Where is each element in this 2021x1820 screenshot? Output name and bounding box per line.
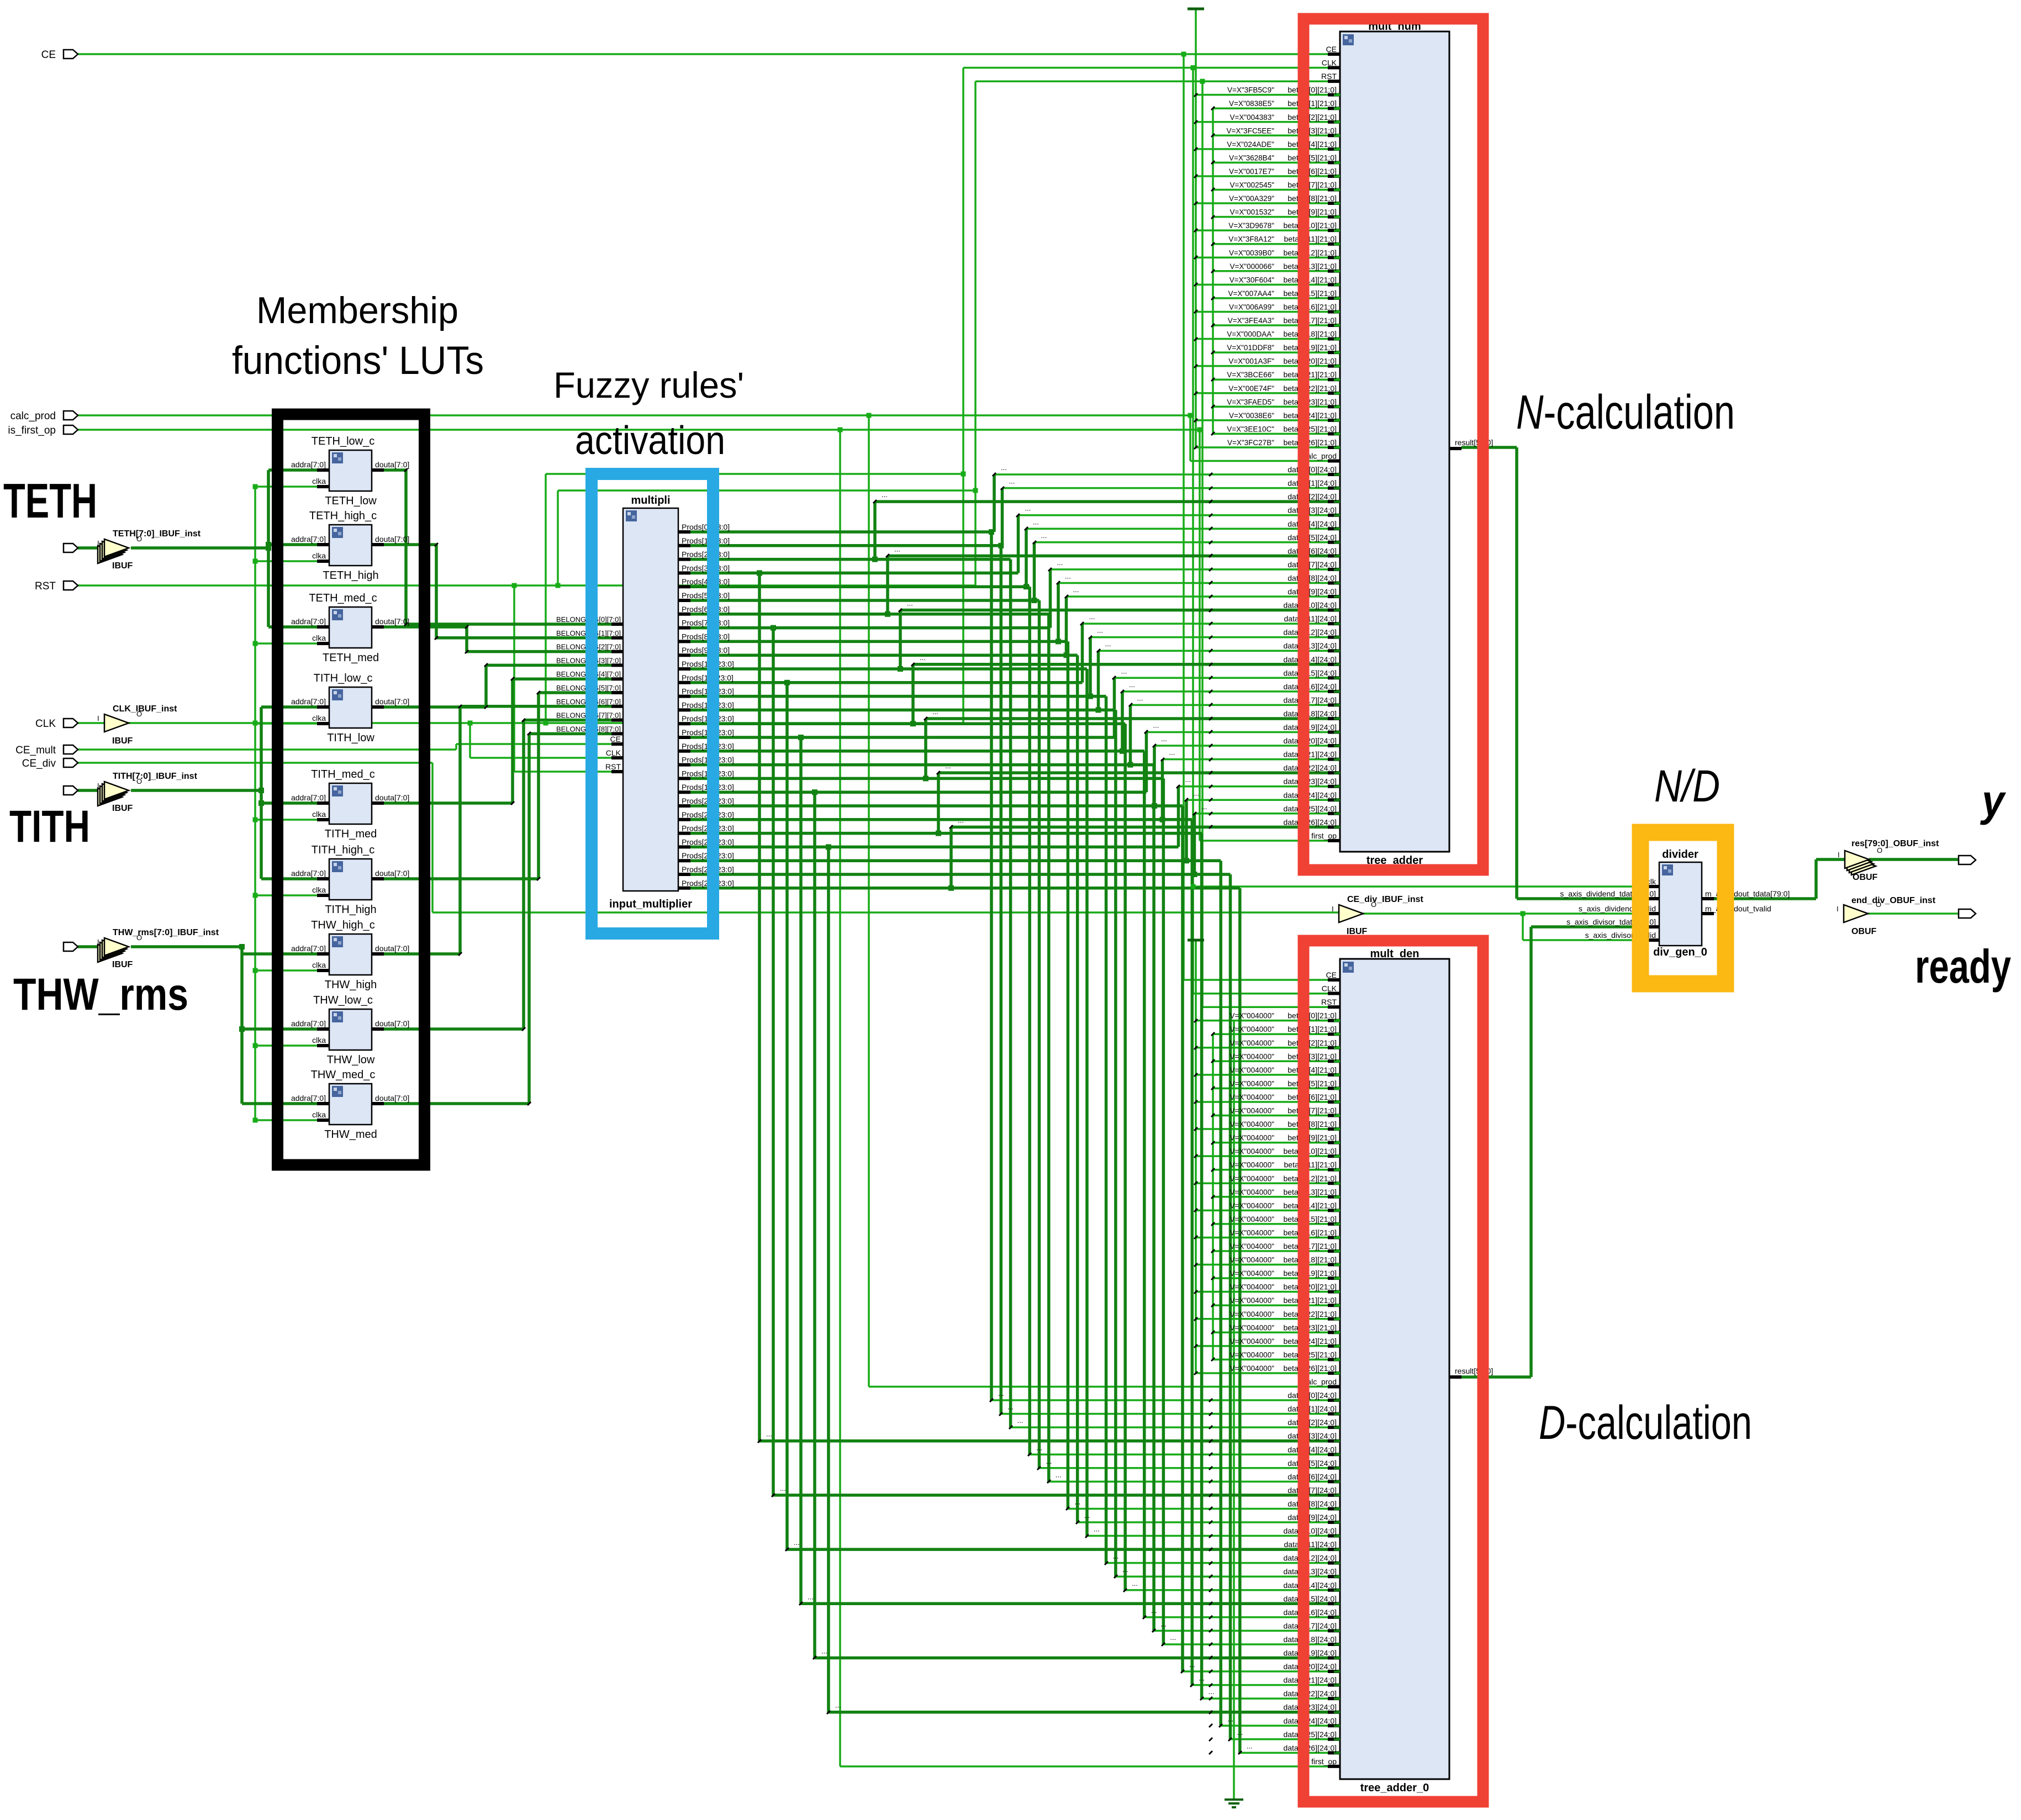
svg-text:beta_i[4][21:0]: beta_i[4][21:0] <box>1287 140 1337 149</box>
svg-text:...: ... <box>1084 1511 1090 1520</box>
svg-text:THW_low_c: THW_low_c <box>313 994 373 1006</box>
svg-text:addra[7:0]: addra[7:0] <box>291 535 326 544</box>
svg-text:...: ... <box>932 708 938 716</box>
svg-text:...: ... <box>1105 640 1111 648</box>
svg-text:data_i[2][24:0]: data_i[2][24:0] <box>1287 492 1337 501</box>
svg-text:beta_i[12][21:0]: beta_i[12][21:0] <box>1283 248 1337 257</box>
svg-text:V=X"00A329": V=X"00A329" <box>1229 194 1274 203</box>
svg-text:...: ... <box>882 490 888 499</box>
svg-text:beta_i[12][21:0]: beta_i[12][21:0] <box>1283 1174 1337 1183</box>
svg-text:data_i[26][24:0]: data_i[26][24:0] <box>1283 1743 1337 1752</box>
svg-text:douta[7:0]: douta[7:0] <box>375 944 409 953</box>
svg-text:beta_i[11][21:0]: beta_i[11][21:0] <box>1284 235 1337 244</box>
svg-text:clka: clka <box>312 551 326 560</box>
svg-text:THW_med: THW_med <box>324 1128 377 1141</box>
svg-text:V=X"004000": V=X"004000" <box>1230 1012 1274 1020</box>
svg-text:data_i[17][24:0]: data_i[17][24:0] <box>1283 695 1337 704</box>
svg-text:V=X"001A3F": V=X"001A3F" <box>1228 357 1274 366</box>
svg-text:Prods[2][23:0]: Prods[2][23:0] <box>682 550 730 559</box>
svg-text:CE: CE <box>610 735 621 743</box>
svg-text:beta_i[20][21:0]: beta_i[20][21:0] <box>1283 357 1337 366</box>
svg-text:TETH: TETH <box>3 473 97 528</box>
svg-text:...: ... <box>1193 789 1199 797</box>
svg-text:...: ... <box>1007 1403 1014 1411</box>
svg-text:V=X"004000": V=X"004000" <box>1230 1052 1274 1061</box>
svg-text:TETH_low_c: TETH_low_c <box>312 435 374 447</box>
svg-text:data_i[9][24:0]: data_i[9][24:0] <box>1287 587 1337 596</box>
svg-text:data_i[21][24:0]: data_i[21][24:0] <box>1283 750 1337 759</box>
svg-text:data_i[10][24:0]: data_i[10][24:0] <box>1283 1527 1337 1536</box>
svg-text:data_i[5][24:0]: data_i[5][24:0] <box>1287 533 1337 542</box>
svg-text:V=X"004000": V=X"004000" <box>1230 1215 1274 1223</box>
svg-text:clka: clka <box>312 714 326 722</box>
svg-text:beta_i[1][21:0]: beta_i[1][21:0] <box>1287 99 1337 108</box>
svg-text:V=X"3FC5EE": V=X"3FC5EE" <box>1227 126 1275 135</box>
svg-text:addra[7:0]: addra[7:0] <box>291 793 326 802</box>
svg-text:V=X"004000": V=X"004000" <box>1230 1147 1274 1156</box>
svg-text:...: ... <box>1199 1674 1205 1682</box>
svg-text:data_i[15][24:0]: data_i[15][24:0] <box>1283 668 1337 677</box>
svg-text:Prods[7][23:0]: Prods[7][23:0] <box>682 619 730 627</box>
svg-text:V=X"004000": V=X"004000" <box>1230 1201 1274 1210</box>
svg-text:data_i[0][24:0]: data_i[0][24:0] <box>1287 465 1337 474</box>
svg-text:V=X"30F604": V=X"30F604" <box>1230 276 1274 284</box>
svg-text:TETH_high: TETH_high <box>323 569 378 582</box>
svg-text:...: ... <box>1097 626 1103 635</box>
svg-text:...: ... <box>821 1647 827 1655</box>
svg-text:THW_rms[7:0]_IBUF_inst: THW_rms[7:0]_IBUF_inst <box>113 928 219 937</box>
svg-text:...: ... <box>1017 1416 1023 1425</box>
svg-text:end_div_OBUF_inst: end_div_OBUF_inst <box>1851 896 1936 905</box>
svg-text:...: ... <box>958 816 964 824</box>
svg-text:beta_i[8][21:0]: beta_i[8][21:0] <box>1287 194 1337 203</box>
svg-text:CLK: CLK <box>1322 984 1337 993</box>
svg-text:beta_i[22][21:0]: beta_i[22][21:0] <box>1283 384 1337 393</box>
svg-text:N-calculation: N-calculation <box>1516 386 1735 439</box>
svg-text:beta_i[26][21:0]: beta_i[26][21:0] <box>1283 438 1337 447</box>
svg-text:beta_i[6][21:0]: beta_i[6][21:0] <box>1287 1093 1337 1101</box>
svg-text:THW_high: THW_high <box>325 979 377 991</box>
svg-text:data_i[16][24:0]: data_i[16][24:0] <box>1283 1608 1337 1617</box>
svg-text:V=X"3FC27B": V=X"3FC27B" <box>1227 439 1274 447</box>
svg-text:data_i[15][24:0]: data_i[15][24:0] <box>1283 1594 1337 1603</box>
svg-text:data_i[7][24:0]: data_i[7][24:0] <box>1287 1486 1337 1495</box>
svg-text:CE: CE <box>1326 970 1337 979</box>
svg-text:beta_i[14][21:0]: beta_i[14][21:0] <box>1283 275 1337 284</box>
svg-text:TITH_med_c: TITH_med_c <box>311 768 375 780</box>
svg-text:V=X"004000": V=X"004000" <box>1230 1188 1274 1196</box>
svg-text:...: ... <box>1073 585 1079 594</box>
svg-text:data_i[11][24:0]: data_i[11][24:0] <box>1284 1540 1337 1549</box>
svg-text:V=X"006A99": V=X"006A99" <box>1229 303 1274 311</box>
svg-text:multipli: multipli <box>631 494 670 507</box>
svg-text:V=X"0838E5": V=X"0838E5" <box>1229 99 1274 108</box>
svg-text:clka: clka <box>312 477 326 486</box>
svg-text:addra[7:0]: addra[7:0] <box>291 944 326 953</box>
svg-text:first_op: first_op <box>1311 1757 1337 1766</box>
svg-text:CE: CE <box>1326 45 1337 54</box>
svg-text:data_i[12][24:0]: data_i[12][24:0] <box>1283 1554 1337 1563</box>
svg-text:data_i[24][24:0]: data_i[24][24:0] <box>1283 1716 1337 1725</box>
svg-text:V=X"3628B4": V=X"3628B4" <box>1229 154 1274 162</box>
svg-text:beta_i[7][21:0]: beta_i[7][21:0] <box>1287 1106 1337 1115</box>
svg-text:V=X"3FAED5": V=X"3FAED5" <box>1227 398 1274 406</box>
svg-text:...: ... <box>1122 1565 1128 1574</box>
svg-text:data_i[22][24:0]: data_i[22][24:0] <box>1283 763 1337 772</box>
svg-text:addra[7:0]: addra[7:0] <box>291 460 326 469</box>
svg-text:...: ... <box>1046 1457 1052 1465</box>
svg-text:beta_i[13][21:0]: beta_i[13][21:0] <box>1283 1188 1337 1196</box>
svg-text:...: ... <box>1227 1715 1233 1723</box>
svg-text:beta_i[24][21:0]: beta_i[24][21:0] <box>1283 1337 1337 1346</box>
svg-text:N/D: N/D <box>1654 761 1720 811</box>
svg-text:beta_i[7][21:0]: beta_i[7][21:0] <box>1287 181 1337 189</box>
svg-text:Prods[0][23:0]: Prods[0][23:0] <box>682 523 730 531</box>
svg-text:douta[7:0]: douta[7:0] <box>375 1094 409 1102</box>
svg-text:beta_i[25][21:0]: beta_i[25][21:0] <box>1283 424 1337 433</box>
svg-text:V=X"0017E7": V=X"0017E7" <box>1229 167 1274 176</box>
svg-text:...: ... <box>1036 1443 1042 1452</box>
svg-text:beta_i[2][21:0]: beta_i[2][21:0] <box>1287 113 1337 122</box>
svg-text:beta_i[5][21:0]: beta_i[5][21:0] <box>1287 1079 1337 1088</box>
svg-text:TITH_low_c: TITH_low_c <box>314 672 373 684</box>
svg-text:CLK_IBUF_inst: CLK_IBUF_inst <box>113 704 177 714</box>
svg-text:...: ... <box>1201 803 1207 811</box>
svg-text:data_i[2][24:0]: data_i[2][24:0] <box>1287 1418 1337 1427</box>
svg-text:V=X"000DAA": V=X"000DAA" <box>1227 330 1274 339</box>
svg-text:beta_i[15][21:0]: beta_i[15][21:0] <box>1283 289 1337 298</box>
svg-text:input_multiplier: input_multiplier <box>609 898 692 910</box>
svg-text:V=X"0039B0": V=X"0039B0" <box>1229 249 1274 257</box>
svg-text:Prods[5][23:0]: Prods[5][23:0] <box>682 591 730 600</box>
svg-text:Fuzzy rules': Fuzzy rules' <box>553 365 744 405</box>
svg-text:RST: RST <box>1321 998 1337 1006</box>
svg-text:beta_i[0][21:0]: beta_i[0][21:0] <box>1287 86 1337 94</box>
svg-text:V=X"004000": V=X"004000" <box>1230 1039 1274 1047</box>
svg-text:addra[7:0]: addra[7:0] <box>291 869 326 878</box>
svg-text:V=X"004000": V=X"004000" <box>1230 1228 1274 1237</box>
svg-text:...: ... <box>1209 1687 1215 1696</box>
svg-text:data_i[5][24:0]: data_i[5][24:0] <box>1287 1459 1337 1468</box>
svg-text:data_i[6][24:0]: data_i[6][24:0] <box>1287 1472 1337 1481</box>
svg-text:data_i[23][24:0]: data_i[23][24:0] <box>1283 1703 1337 1712</box>
svg-text:data_i[10][24:0]: data_i[10][24:0] <box>1283 601 1337 610</box>
svg-text:Prods[4][23:0]: Prods[4][23:0] <box>682 577 730 586</box>
svg-text:RST: RST <box>35 581 56 592</box>
svg-text:...: ... <box>1137 694 1143 702</box>
svg-text:y: y <box>1980 776 2006 825</box>
svg-text:data_i[21][24:0]: data_i[21][24:0] <box>1283 1676 1337 1685</box>
svg-text:data_i[26][24:0]: data_i[26][24:0] <box>1283 817 1337 826</box>
svg-text:activation: activation <box>575 419 725 463</box>
svg-text:...: ... <box>835 1701 841 1710</box>
svg-text:beta_i[1][21:0]: beta_i[1][21:0] <box>1287 1025 1337 1033</box>
svg-text:...: ... <box>1153 721 1159 730</box>
svg-text:...: ... <box>1056 1470 1062 1479</box>
svg-text:V=X"3BCE66": V=X"3BCE66" <box>1227 371 1274 379</box>
svg-text:is_first_op: is_first_op <box>8 425 56 436</box>
svg-text:clka: clka <box>312 634 326 642</box>
svg-text:V=X"004000": V=X"004000" <box>1230 1174 1274 1183</box>
svg-text:Prods[1][23:0]: Prods[1][23:0] <box>682 536 730 545</box>
svg-text:beta_i[17][21:0]: beta_i[17][21:0] <box>1283 1242 1337 1251</box>
svg-text:...: ... <box>1132 1579 1138 1587</box>
svg-text:data_i[16][24:0]: data_i[16][24:0] <box>1283 682 1337 691</box>
svg-text:div_gen_0: div_gen_0 <box>1653 946 1707 958</box>
svg-text:beta_i[5][21:0]: beta_i[5][21:0] <box>1287 153 1337 162</box>
svg-text:data_i[19][24:0]: data_i[19][24:0] <box>1283 1649 1337 1658</box>
svg-text:V=X"004000": V=X"004000" <box>1230 1134 1274 1142</box>
svg-text:data_i[20][24:0]: data_i[20][24:0] <box>1283 736 1337 745</box>
svg-text:...: ... <box>1247 1742 1253 1750</box>
svg-text:V=X"004383": V=X"004383" <box>1230 113 1274 122</box>
svg-text:beta_i[0][21:0]: beta_i[0][21:0] <box>1287 1011 1337 1020</box>
svg-text:CE_mult: CE_mult <box>15 745 56 756</box>
svg-text:data_i[25][24:0]: data_i[25][24:0] <box>1283 804 1337 813</box>
svg-text:data_i[11][24:0]: data_i[11][24:0] <box>1284 614 1337 623</box>
svg-text:CLK: CLK <box>606 748 621 757</box>
svg-text:V=X"004000": V=X"004000" <box>1230 1093 1274 1101</box>
svg-text:V=X"004000": V=X"004000" <box>1230 1351 1274 1359</box>
svg-text:res[79:0]_OBUF_inst: res[79:0]_OBUF_inst <box>1851 839 1939 848</box>
svg-text:beta_i[21][21:0]: beta_i[21][21:0] <box>1283 1296 1337 1305</box>
svg-text:addra[7:0]: addra[7:0] <box>291 1019 326 1028</box>
svg-text:V=X"002545": V=X"002545" <box>1230 181 1274 189</box>
svg-text:beta_i[23][21:0]: beta_i[23][21:0] <box>1283 1323 1337 1332</box>
svg-text:beta_i[26][21:0]: beta_i[26][21:0] <box>1283 1364 1337 1373</box>
svg-text:beta_i[17][21:0]: beta_i[17][21:0] <box>1283 316 1337 325</box>
svg-text:beta_i[18][21:0]: beta_i[18][21:0] <box>1283 1255 1337 1264</box>
svg-text:beta_i[9][21:0]: beta_i[9][21:0] <box>1287 1133 1337 1142</box>
svg-text:beta_i[13][21:0]: beta_i[13][21:0] <box>1283 262 1337 271</box>
svg-text:douta[7:0]: douta[7:0] <box>375 460 409 469</box>
svg-text:V=X"00E74F": V=X"00E74F" <box>1228 384 1274 393</box>
svg-text:data_i[9][24:0]: data_i[9][24:0] <box>1287 1513 1337 1522</box>
svg-text:I: I <box>1332 905 1334 913</box>
svg-text:tree_adder_0: tree_adder_0 <box>1360 1782 1429 1794</box>
svg-text:data_i[22][24:0]: data_i[22][24:0] <box>1283 1689 1337 1698</box>
svg-text:RST: RST <box>605 762 621 771</box>
svg-text:V=X"0038E6": V=X"0038E6" <box>1229 412 1274 420</box>
svg-text:douta[7:0]: douta[7:0] <box>375 535 409 544</box>
svg-text:data_i[14][24:0]: data_i[14][24:0] <box>1283 655 1337 664</box>
svg-text:...: ... <box>894 545 900 553</box>
svg-text:data_i[18][24:0]: data_i[18][24:0] <box>1283 709 1337 718</box>
svg-text:beta_i[3][21:0]: beta_i[3][21:0] <box>1287 1052 1337 1061</box>
svg-text:TITH_high: TITH_high <box>325 904 376 916</box>
svg-text:V=X"004000": V=X"004000" <box>1230 1025 1274 1033</box>
svg-text:V=X"004000": V=X"004000" <box>1230 1310 1274 1318</box>
svg-text:CE_div_IBUF_inst: CE_div_IBUF_inst <box>1347 895 1423 904</box>
svg-text:data_i[3][24:0]: data_i[3][24:0] <box>1287 506 1337 515</box>
svg-text:divider: divider <box>1662 848 1698 861</box>
svg-text:mult_den: mult_den <box>1370 948 1420 960</box>
svg-text:V=X"004000": V=X"004000" <box>1230 1161 1274 1169</box>
svg-text:...: ... <box>998 1389 1004 1397</box>
svg-text:TITH: TITH <box>9 801 90 852</box>
svg-text:data_i[23][24:0]: data_i[23][24:0] <box>1283 777 1337 786</box>
svg-text:V=X"3FE4A3": V=X"3FE4A3" <box>1228 316 1274 325</box>
svg-text:V=X"001532": V=X"001532" <box>1230 208 1274 217</box>
svg-text:...: ... <box>794 1538 800 1547</box>
svg-text:clka: clka <box>312 1036 326 1044</box>
svg-text:...: ... <box>1033 518 1039 526</box>
svg-text:V=X"004000": V=X"004000" <box>1230 1364 1274 1373</box>
svg-text:Membership: Membership <box>256 289 458 331</box>
svg-text:data_i[7][24:0]: data_i[7][24:0] <box>1287 560 1337 569</box>
svg-text:data_i[8][24:0]: data_i[8][24:0] <box>1287 573 1337 582</box>
svg-text:...: ... <box>1065 572 1071 580</box>
svg-text:...: ... <box>1057 558 1063 567</box>
svg-text:beta_i[15][21:0]: beta_i[15][21:0] <box>1283 1215 1337 1223</box>
svg-text:beta_i[22][21:0]: beta_i[22][21:0] <box>1283 1310 1337 1318</box>
svg-text:...: ... <box>1094 1525 1100 1533</box>
svg-text:...: ... <box>1129 680 1135 689</box>
svg-text:TITH[7:0]_IBUF_inst: TITH[7:0]_IBUF_inst <box>113 772 198 781</box>
svg-text:RST: RST <box>1321 72 1337 81</box>
svg-text:data_i[8][24:0]: data_i[8][24:0] <box>1287 1499 1337 1508</box>
svg-text:clka: clka <box>312 885 326 894</box>
svg-text:...: ... <box>1160 1619 1167 1628</box>
svg-text:THW_low: THW_low <box>327 1054 375 1066</box>
svg-text:V=X"004000": V=X"004000" <box>1230 1337 1274 1346</box>
svg-text:V=X"3FB5C9": V=X"3FB5C9" <box>1227 86 1274 94</box>
svg-text:V=X"004000": V=X"004000" <box>1230 1296 1274 1305</box>
svg-text:OBUF: OBUF <box>1851 927 1877 936</box>
svg-text:TITH_low: TITH_low <box>327 732 374 744</box>
svg-text:IBUF: IBUF <box>112 561 133 571</box>
svg-text:beta_i[11][21:0]: beta_i[11][21:0] <box>1284 1160 1337 1169</box>
svg-text:TETH_high_c: TETH_high_c <box>309 510 377 522</box>
svg-text:...: ... <box>808 1592 814 1601</box>
svg-text:...: ... <box>1009 477 1015 486</box>
svg-text:data_i[24][24:0]: data_i[24][24:0] <box>1283 790 1337 799</box>
svg-text:I: I <box>1838 851 1840 859</box>
svg-text:data_i[18][24:0]: data_i[18][24:0] <box>1283 1635 1337 1644</box>
svg-text:V=X"004000": V=X"004000" <box>1230 1256 1274 1264</box>
svg-text:CE_div: CE_div <box>22 758 56 769</box>
svg-text:...: ... <box>780 1484 786 1492</box>
svg-text:...: ... <box>920 653 926 662</box>
svg-text:beta_i[25][21:0]: beta_i[25][21:0] <box>1283 1350 1337 1359</box>
svg-text:V=X"004000": V=X"004000" <box>1230 1066 1274 1074</box>
svg-text:douta[7:0]: douta[7:0] <box>375 869 409 878</box>
svg-text:data_i[20][24:0]: data_i[20][24:0] <box>1283 1662 1337 1671</box>
svg-text:data_i[13][24:0]: data_i[13][24:0] <box>1283 641 1337 650</box>
svg-text:functions' LUTs: functions' LUTs <box>232 339 484 383</box>
svg-text:CE: CE <box>41 49 56 61</box>
svg-text:clka: clka <box>312 961 326 969</box>
svg-text:I: I <box>97 938 99 946</box>
svg-text:V=X"004000": V=X"004000" <box>1230 1269 1274 1278</box>
svg-text:...: ... <box>1161 735 1167 743</box>
svg-text:...: ... <box>1185 776 1191 784</box>
svg-text:I: I <box>1837 905 1839 913</box>
svg-text:clka: clka <box>312 1110 326 1119</box>
svg-text:beta_i[10][21:0]: beta_i[10][21:0] <box>1283 1147 1337 1156</box>
svg-text:beta_i[10][21:0]: beta_i[10][21:0] <box>1283 221 1337 230</box>
svg-text:addra[7:0]: addra[7:0] <box>291 1094 326 1102</box>
svg-text:V=X"3EE10C": V=X"3EE10C" <box>1227 425 1274 433</box>
svg-text:...: ... <box>1170 1633 1176 1642</box>
svg-text:beta_i[21][21:0]: beta_i[21][21:0] <box>1283 370 1337 379</box>
svg-text:V=X"01DDF8": V=X"01DDF8" <box>1227 344 1274 352</box>
svg-text:TETH_med: TETH_med <box>323 652 379 664</box>
svg-text:addra[7:0]: addra[7:0] <box>291 697 326 706</box>
svg-text:CLK: CLK <box>1322 59 1337 67</box>
svg-text:...: ... <box>1041 531 1047 540</box>
svg-text:data_i[1][24:0]: data_i[1][24:0] <box>1287 1405 1337 1413</box>
svg-text:CLK: CLK <box>35 718 56 730</box>
svg-text:...: ... <box>766 1430 772 1438</box>
svg-text:Prods[3][23:0]: Prods[3][23:0] <box>682 563 730 572</box>
svg-text:ready: ready <box>1915 941 2011 993</box>
svg-text:V=X"004000": V=X"004000" <box>1230 1323 1274 1332</box>
svg-text:TITH_high_c: TITH_high_c <box>312 844 375 856</box>
svg-text:data_i[14][24:0]: data_i[14][24:0] <box>1283 1581 1337 1590</box>
svg-text:douta[7:0]: douta[7:0] <box>375 793 409 802</box>
svg-text:TETH_low: TETH_low <box>325 495 377 507</box>
svg-text:Prods[9][23:0]: Prods[9][23:0] <box>682 646 730 655</box>
svg-text:data_i[4][24:0]: data_i[4][24:0] <box>1287 519 1337 528</box>
svg-text:TETH_med_c: TETH_med_c <box>309 592 377 604</box>
svg-text:beta_i[3][21:0]: beta_i[3][21:0] <box>1287 126 1337 135</box>
svg-text:OBUF: OBUF <box>1853 873 1878 882</box>
svg-text:data_i[4][24:0]: data_i[4][24:0] <box>1287 1445 1337 1454</box>
svg-text:D-calculation: D-calculation <box>1539 1396 1752 1449</box>
svg-text:V=X"004000": V=X"004000" <box>1230 1079 1274 1088</box>
svg-text:V=X"004000": V=X"004000" <box>1230 1242 1274 1251</box>
svg-text:V=X"004000": V=X"004000" <box>1230 1283 1274 1291</box>
svg-text:addra[7:0]: addra[7:0] <box>291 617 326 626</box>
svg-text:beta_i[2][21:0]: beta_i[2][21:0] <box>1287 1038 1337 1047</box>
svg-text:beta_i[16][21:0]: beta_i[16][21:0] <box>1283 302 1337 311</box>
svg-text:beta_i[20][21:0]: beta_i[20][21:0] <box>1283 1283 1337 1291</box>
svg-text:...: ... <box>1113 1552 1119 1560</box>
svg-text:...: ... <box>1151 1606 1157 1615</box>
svg-text:V=X"004000": V=X"004000" <box>1230 1107 1274 1115</box>
svg-text:THW_rms: THW_rms <box>13 969 188 1020</box>
svg-text:data_i[3][24:0]: data_i[3][24:0] <box>1287 1432 1337 1441</box>
svg-text:THW_high_c: THW_high_c <box>311 919 375 931</box>
svg-text:beta_i[23][21:0]: beta_i[23][21:0] <box>1283 397 1337 406</box>
svg-text:beta_i[16][21:0]: beta_i[16][21:0] <box>1283 1228 1337 1237</box>
svg-text:TITH_med: TITH_med <box>325 828 377 840</box>
svg-text:beta_i[8][21:0]: beta_i[8][21:0] <box>1287 1120 1337 1128</box>
svg-text:V=X"007AA4": V=X"007AA4" <box>1228 289 1274 298</box>
svg-text:...: ... <box>1169 748 1175 757</box>
svg-text:beta_i[14][21:0]: beta_i[14][21:0] <box>1283 1201 1337 1210</box>
svg-text:...: ... <box>1074 1497 1080 1506</box>
svg-text:beta_i[19][21:0]: beta_i[19][21:0] <box>1283 343 1337 352</box>
svg-text:beta_i[24][21:0]: beta_i[24][21:0] <box>1283 411 1337 420</box>
svg-text:I: I <box>97 539 99 547</box>
svg-text:IBUF: IBUF <box>1347 927 1368 936</box>
svg-text:data_i[13][24:0]: data_i[13][24:0] <box>1283 1567 1337 1576</box>
svg-text:THW_med_c: THW_med_c <box>311 1069 376 1081</box>
svg-text:V=X"004000": V=X"004000" <box>1230 1120 1274 1128</box>
svg-text:data_i[0][24:0]: data_i[0][24:0] <box>1287 1391 1337 1400</box>
svg-text:IBUF: IBUF <box>112 960 133 969</box>
svg-text:IBUF: IBUF <box>112 804 133 813</box>
svg-text:...: ... <box>1089 613 1095 621</box>
svg-text:...: ... <box>1001 463 1007 472</box>
svg-text:beta_i[18][21:0]: beta_i[18][21:0] <box>1283 330 1337 339</box>
svg-text:douta[7:0]: douta[7:0] <box>375 1019 409 1028</box>
svg-text:beta_i[9][21:0]: beta_i[9][21:0] <box>1287 208 1337 217</box>
svg-text:...: ... <box>1189 1660 1195 1669</box>
svg-text:V=X"3F8A12": V=X"3F8A12" <box>1228 235 1274 244</box>
